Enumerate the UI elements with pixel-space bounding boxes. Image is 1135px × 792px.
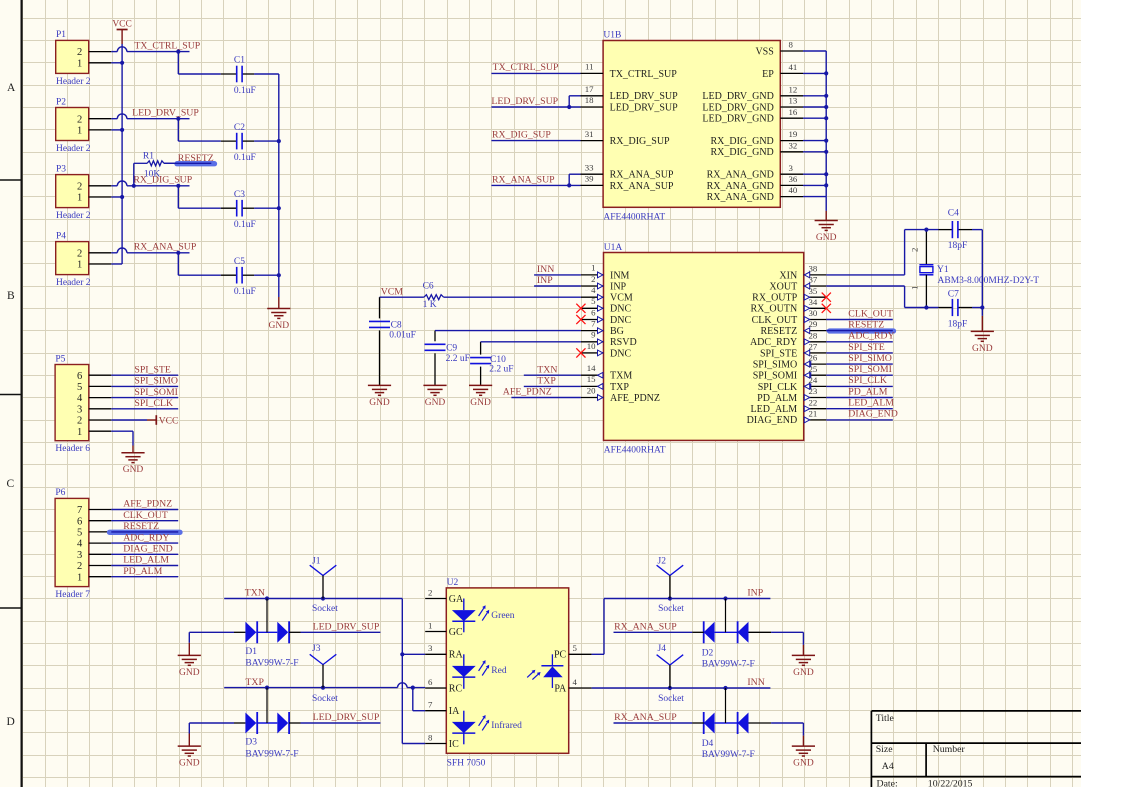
wire U1B GND bus xyxy=(803,50,826,52)
pin 6 RC U2 xyxy=(425,687,446,689)
svg-text:AFE4400RHAT: AFE4400RHAT xyxy=(604,445,666,455)
svg-text:TXP: TXP xyxy=(537,376,556,387)
pin 3 RA U2 xyxy=(425,653,446,655)
svg-text:Date:: Date: xyxy=(877,779,898,787)
svg-text:15: 15 xyxy=(587,374,596,384)
wire VCC bus vertical xyxy=(121,44,123,264)
svg-text:RX_ANA_GND: RX_ANA_GND xyxy=(707,181,774,192)
wire TX_CTRL_SUP branch to C1 xyxy=(177,52,179,74)
svg-text:GND: GND xyxy=(470,398,491,408)
pin 36 RX_ANA_GND U1B xyxy=(780,184,803,186)
junction INP at D2 xyxy=(723,596,727,600)
wire RX_DIG_SUP to U1B pin 31 xyxy=(491,140,580,142)
svg-text:GC: GC xyxy=(449,627,463,638)
svg-text:RX_DIG_SUP: RX_DIG_SUP xyxy=(492,130,551,141)
svg-text:4: 4 xyxy=(77,393,83,404)
wire decoupling GND bus right xyxy=(278,74,280,297)
svg-text:35: 35 xyxy=(809,286,818,296)
svg-text:A: A xyxy=(7,82,16,94)
svg-text:D: D xyxy=(7,716,15,728)
pin 3 RX_ANA_GND U1B xyxy=(780,173,803,175)
diode D1 BAV99W-7-F xyxy=(245,622,256,643)
socket J4 xyxy=(657,655,684,665)
svg-text:LED_DRV_GND: LED_DRV_GND xyxy=(702,114,773,125)
svg-text:J3: J3 xyxy=(312,644,321,654)
svg-text:23: 23 xyxy=(809,386,818,396)
svg-text:LED_DRV_SUP: LED_DRV_SUP xyxy=(610,91,679,102)
wire XOUT xyxy=(826,285,904,287)
svg-text:2: 2 xyxy=(910,248,920,252)
svg-text:LED_ALM: LED_ALM xyxy=(848,398,894,409)
svg-text:24: 24 xyxy=(809,375,818,385)
svg-text:GA: GA xyxy=(449,594,464,605)
svg-text:XOUT: XOUT xyxy=(769,281,797,292)
svg-text:VCC: VCC xyxy=(159,416,179,426)
wire TXP to pin 15 xyxy=(524,385,581,387)
junction crystal bottom xyxy=(924,305,928,309)
junction U1B gnd bus row xyxy=(824,71,828,75)
junction TXN at D1 xyxy=(265,596,269,600)
svg-text:Title: Title xyxy=(876,713,895,724)
svg-text:2: 2 xyxy=(428,587,432,597)
connector P6 Header 7 xyxy=(55,498,89,586)
svg-text:Socket: Socket xyxy=(312,694,338,704)
svg-text:Header 6: Header 6 xyxy=(55,444,90,454)
pin 21 DIAG_END U1A xyxy=(804,419,827,421)
wire LED_DRV_SUP xyxy=(111,118,117,120)
svg-text:C3: C3 xyxy=(234,190,245,200)
pin 2 GA U2 xyxy=(425,598,446,600)
svg-text:P3: P3 xyxy=(56,164,66,174)
svg-text:A4: A4 xyxy=(882,761,894,772)
svg-text:RX_ANA_SUP: RX_ANA_SUP xyxy=(492,175,555,186)
svg-text:3: 3 xyxy=(428,643,433,653)
pin 33 RX_ANA_SUP U1B xyxy=(581,173,604,175)
wire XIN xyxy=(826,274,904,276)
svg-text:5: 5 xyxy=(573,643,578,653)
svg-text:INP: INP xyxy=(610,281,627,292)
junction U1B gnd bus row xyxy=(824,116,828,120)
wire DIAG_END at P6 xyxy=(111,553,178,555)
svg-text:32: 32 xyxy=(789,140,798,150)
svg-text:C10: C10 xyxy=(490,355,506,365)
wire TX_CTRL_SUP to U1B pin 11 xyxy=(491,72,580,74)
junction C3 at GND bus xyxy=(277,206,281,210)
svg-text:BG: BG xyxy=(610,326,624,337)
svg-text:3: 3 xyxy=(77,550,82,561)
svg-text:TX_CTRL_SUP: TX_CTRL_SUP xyxy=(493,62,559,73)
highlight RESETZ at R1 xyxy=(177,161,215,166)
capacitor C3 xyxy=(221,207,237,209)
svg-text:D2: D2 xyxy=(702,648,714,658)
wire RX_DIG_SUP xyxy=(111,185,117,187)
wire D1 left to GND xyxy=(189,631,234,633)
wire TX_CTRL_SUP xyxy=(111,51,117,53)
svg-text:SPI_SIMO: SPI_SIMO xyxy=(134,376,178,387)
pin 41 EP U1B xyxy=(780,72,803,74)
svg-text:INM: INM xyxy=(610,270,630,281)
capacitor C10 2.2uF xyxy=(480,342,482,355)
svg-text:INN: INN xyxy=(537,264,554,275)
svg-text:1: 1 xyxy=(591,263,595,273)
pin 22 LED_ALM U1A xyxy=(804,408,827,410)
svg-text:9: 9 xyxy=(591,330,596,340)
pin 20 AFE_PDNZ U1A xyxy=(581,397,604,399)
svg-text:LED_DRV_GND: LED_DRV_GND xyxy=(702,102,773,113)
svg-text:Number: Number xyxy=(933,744,966,755)
wire INP to pin 2 xyxy=(534,285,581,287)
svg-text:1: 1 xyxy=(77,58,82,69)
svg-text:17: 17 xyxy=(585,84,594,94)
zone tick 2 xyxy=(0,394,22,396)
wire LED_DRV_SUP branch to C2 xyxy=(177,119,179,141)
zone tick 1 xyxy=(0,179,22,181)
svg-text:XIN: XIN xyxy=(779,270,797,281)
svg-text:4: 4 xyxy=(77,539,83,550)
wire VCM xyxy=(380,296,424,298)
wire C10 to pin 9 RSVD xyxy=(481,341,581,343)
wire SPI_STE right xyxy=(826,352,893,354)
junction U1B gnd bus row xyxy=(824,172,828,176)
svg-text:C1: C1 xyxy=(234,56,245,66)
svg-text:1: 1 xyxy=(77,193,82,204)
svg-text:B: B xyxy=(7,290,15,302)
svg-text:PA: PA xyxy=(554,683,567,694)
svg-text:5: 5 xyxy=(591,296,596,306)
junction U1B gnd bus row xyxy=(824,139,828,143)
wire LED_ALM right xyxy=(826,408,893,410)
pin 4 PA U2 xyxy=(569,687,592,689)
svg-text:BAV99W-7-F: BAV99W-7-F xyxy=(702,750,755,760)
junction P2 pin1 on VCC bus xyxy=(120,128,124,132)
wire C9 to pin 7 BG xyxy=(435,330,581,332)
svg-text:Socket: Socket xyxy=(312,604,338,614)
svg-text:RX_ANA_GND: RX_ANA_GND xyxy=(707,192,774,203)
junction LED_DRV_SUP to C2 xyxy=(176,117,180,121)
svg-text:BAV99W-7-F: BAV99W-7-F xyxy=(245,749,298,759)
svg-text:0.1uF: 0.1uF xyxy=(234,287,256,297)
capacitor C8 0.01uF xyxy=(379,297,381,318)
ic U2 SFH 7050 body xyxy=(446,588,568,753)
junction R1 on RX_DIG_SUP xyxy=(132,184,136,188)
wire CLK_OUT right xyxy=(826,319,893,321)
svg-text:1: 1 xyxy=(910,286,920,290)
svg-text:SPI_CLK: SPI_CLK xyxy=(134,398,173,409)
wire RX_DIG_SUP branch to C3 xyxy=(177,186,179,208)
diode D4 BAV99W-7-F xyxy=(703,712,705,734)
no-connect X pin 6 xyxy=(576,315,585,324)
pin 6 DNC U1A xyxy=(581,319,604,321)
no-connect X pin 10 xyxy=(576,348,585,357)
connector P4 Header 2 xyxy=(56,242,89,275)
wire RX_ANA_SUP branch to C5 xyxy=(177,253,179,275)
svg-text:3: 3 xyxy=(789,163,794,173)
svg-text:RC: RC xyxy=(449,683,463,694)
svg-text:21: 21 xyxy=(809,409,818,419)
capacitor C5 xyxy=(221,274,237,276)
svg-text:5: 5 xyxy=(77,382,82,393)
svg-text:AFE_PDNZ: AFE_PDNZ xyxy=(123,499,172,510)
svg-text:GND: GND xyxy=(816,233,837,243)
resistor R1 10K xyxy=(133,163,135,186)
svg-text:GND: GND xyxy=(793,668,814,678)
wire D3 left to GND xyxy=(189,722,234,724)
wire PD_ALM right xyxy=(826,397,893,399)
junction TXN at RA xyxy=(400,652,404,656)
svg-text:2: 2 xyxy=(77,248,82,259)
svg-text:TX_CTRL_SUP: TX_CTRL_SUP xyxy=(134,41,200,52)
sheet border line xyxy=(21,0,23,787)
svg-text:J4: J4 xyxy=(658,644,667,654)
pin 14 TXM U1A xyxy=(581,374,604,376)
svg-text:C5: C5 xyxy=(234,257,245,267)
svg-text:ADC_RDY: ADC_RDY xyxy=(848,331,894,342)
svg-text:19: 19 xyxy=(789,129,798,139)
svg-text:TXP: TXP xyxy=(610,382,629,393)
pin 12 LED_DRV_GND U1B xyxy=(780,95,803,97)
wire SPI_SOMI right xyxy=(826,374,893,376)
pin 28 ADC_RDY U1A xyxy=(804,341,827,343)
svg-text:29: 29 xyxy=(809,319,818,329)
pin 26 SPI_SIMO U1A xyxy=(804,363,827,365)
svg-text:P5: P5 xyxy=(55,354,65,364)
svg-text:C7: C7 xyxy=(948,290,959,300)
wire ADC_RDY right xyxy=(826,341,893,343)
svg-text:LED_DRV_SUP: LED_DRV_SUP xyxy=(313,622,380,633)
wire TXP xyxy=(224,687,397,689)
wire RX_ANA_SUP to D4 xyxy=(614,722,693,724)
svg-text:10/22/2015: 10/22/2015 xyxy=(928,779,973,787)
svg-text:P2: P2 xyxy=(56,97,66,107)
svg-text:SPI_SOMI: SPI_SOMI xyxy=(848,364,892,375)
svg-text:RESETZ: RESETZ xyxy=(761,326,798,337)
svg-text:1: 1 xyxy=(428,620,432,630)
svg-text:GND: GND xyxy=(179,759,200,769)
wire RX_ANA_SUP to U1B pins 33 39 xyxy=(491,184,580,186)
wire SPI_SIMO at P5 xyxy=(111,385,178,387)
pin 8 IC U2 xyxy=(425,743,446,745)
junction INN at J4 xyxy=(668,686,672,690)
junction TXP at D3 xyxy=(265,686,269,690)
junction U1B gnd bus row xyxy=(824,94,828,98)
svg-text:31: 31 xyxy=(585,129,594,139)
svg-text:1: 1 xyxy=(77,260,82,271)
junction crystal top xyxy=(924,228,928,232)
svg-text:SPI_CLK: SPI_CLK xyxy=(758,382,798,393)
wire crystal right vertical xyxy=(981,230,983,308)
svg-text:D3: D3 xyxy=(245,738,257,748)
svg-text:U2: U2 xyxy=(447,578,459,588)
svg-text:4: 4 xyxy=(573,677,578,687)
wire RX_ANA_SUP xyxy=(111,252,117,254)
svg-text:1 K: 1 K xyxy=(423,300,437,310)
svg-text:GND: GND xyxy=(972,344,993,354)
svg-text:IC: IC xyxy=(449,739,459,750)
capacitor C4 18pF xyxy=(939,229,953,231)
svg-text:D4: D4 xyxy=(702,739,714,749)
svg-text:RX_OUTN: RX_OUTN xyxy=(751,304,798,315)
svg-text:28: 28 xyxy=(809,330,818,340)
wire SPI_SOMI at P5 xyxy=(111,397,178,399)
photodiode in U2 xyxy=(551,654,553,666)
pin 8 VSS U1B xyxy=(780,50,803,52)
zone tick 3 xyxy=(0,607,22,609)
svg-text:38: 38 xyxy=(809,264,818,274)
svg-text:10: 10 xyxy=(587,341,596,351)
svg-text:SPI_SOMI: SPI_SOMI xyxy=(134,387,178,398)
wire U2 pin4 PA to INN xyxy=(592,687,771,689)
wire LED_DRV_SUP to U1B pins 17 18 xyxy=(491,106,580,108)
svg-text:33: 33 xyxy=(585,162,594,172)
wire PD_ALM at P6 xyxy=(111,576,178,578)
wire INN to pin 1 xyxy=(534,274,581,276)
svg-text:40: 40 xyxy=(789,185,798,195)
svg-text:PD_ALM: PD_ALM xyxy=(123,566,162,577)
capacitor C2 xyxy=(221,140,237,142)
wire RX_ANA_SUP to D2 xyxy=(614,631,693,633)
svg-text:C9: C9 xyxy=(446,343,457,353)
wire RESETZ right xyxy=(826,330,893,332)
svg-text:RA: RA xyxy=(449,650,464,661)
svg-text:DNC: DNC xyxy=(610,348,631,359)
connector P5 Header 6 xyxy=(55,365,89,441)
svg-text:0.01uF: 0.01uF xyxy=(389,330,416,340)
svg-text:AFE_PDNZ: AFE_PDNZ xyxy=(503,387,552,398)
svg-text:SPI_SOMI: SPI_SOMI xyxy=(753,371,797,382)
svg-text:C2: C2 xyxy=(234,123,245,133)
svg-text:0.1uF: 0.1uF xyxy=(234,220,256,230)
svg-text:1: 1 xyxy=(77,126,82,137)
svg-text:LED_ALM: LED_ALM xyxy=(123,555,169,566)
svg-text:C4: C4 xyxy=(948,209,959,219)
svg-text:RX_ANA_SUP: RX_ANA_SUP xyxy=(614,622,677,633)
svg-text:LED_ALM: LED_ALM xyxy=(751,404,798,415)
svg-text:TXM: TXM xyxy=(610,371,632,382)
svg-text:Socket: Socket xyxy=(658,694,684,704)
pin 34 RX_OUTN U1A xyxy=(804,307,827,309)
title block frame xyxy=(871,710,1081,712)
wire RESETZ at P6 xyxy=(111,531,178,533)
wire crystal top xyxy=(905,229,939,231)
svg-text:P6: P6 xyxy=(55,488,65,498)
pin 11 TX_CTRL_SUP U1B xyxy=(581,72,604,74)
svg-text:RX_OUTP: RX_OUTP xyxy=(752,293,797,304)
svg-text:DIAG_END: DIAG_END xyxy=(747,415,798,426)
svg-text:P1: P1 xyxy=(56,30,66,40)
svg-text:8: 8 xyxy=(789,40,794,50)
pin 19 RX_DIG_GND U1B xyxy=(780,140,803,142)
svg-text:VCC: VCC xyxy=(112,19,132,29)
svg-text:2.2 uF: 2.2 uF xyxy=(489,365,513,375)
svg-text:Header 2: Header 2 xyxy=(56,211,91,221)
svg-text:2: 2 xyxy=(77,416,82,427)
svg-text:RX_DIG_GND: RX_DIG_GND xyxy=(710,136,773,147)
svg-text:RESETZ: RESETZ xyxy=(123,521,159,532)
wire P5 pin2 to VCC xyxy=(111,419,147,421)
junction RX_DIG_SUP to C3 xyxy=(176,184,180,188)
svg-text:R1: R1 xyxy=(143,152,154,162)
svg-text:DNC: DNC xyxy=(610,315,631,326)
wire C6 to pin 4 VCM xyxy=(444,296,581,298)
svg-text:2.2 uF: 2.2 uF xyxy=(446,354,470,364)
svg-text:GND: GND xyxy=(123,465,144,475)
pin 4 VCM U1A xyxy=(581,296,604,298)
junction P1 pin1 on VCC bus xyxy=(120,61,124,65)
pin 1 INM U1A xyxy=(581,274,604,276)
wire IA branch xyxy=(412,688,414,711)
diode D3 BAV99W-7-F xyxy=(245,713,256,734)
svg-text:RX_ANA_SUP: RX_ANA_SUP xyxy=(134,242,197,253)
svg-text:SPI_STE: SPI_STE xyxy=(848,342,884,353)
ground GND at D3 xyxy=(188,734,190,747)
svg-text:13: 13 xyxy=(789,96,798,106)
pin 10 DNC U1A xyxy=(581,352,604,354)
wire TXN xyxy=(224,598,402,600)
svg-text:Header 2: Header 2 xyxy=(56,144,91,154)
svg-text:0.1uF: 0.1uF xyxy=(234,86,256,96)
svg-text:RESETZ: RESETZ xyxy=(848,319,884,330)
svg-text:BAV99W-7-F: BAV99W-7-F xyxy=(702,660,755,670)
junction TXP at RC IA xyxy=(411,686,415,690)
svg-text:VCM: VCM xyxy=(381,287,404,298)
ground GND at D1 xyxy=(188,643,190,656)
ground GND at D4 xyxy=(802,736,804,747)
svg-text:Red: Red xyxy=(491,666,507,676)
svg-text:PD_ALM: PD_ALM xyxy=(757,393,797,404)
svg-text:4: 4 xyxy=(591,285,596,295)
svg-text:GND: GND xyxy=(793,759,814,769)
svg-text:DIAG_END: DIAG_END xyxy=(848,409,898,420)
wire D1 LED_DRV_SUP xyxy=(301,631,381,633)
wire TXN to pin 14 xyxy=(524,374,581,376)
ground GND decoupling bus xyxy=(278,297,280,309)
no-connect X pin 5 xyxy=(576,304,585,313)
svg-text:C6: C6 xyxy=(423,282,434,292)
svg-text:ADC_RDY: ADC_RDY xyxy=(750,337,797,348)
svg-text:LED_DRV_GND: LED_DRV_GND xyxy=(702,91,773,102)
svg-text:CLK_OUT: CLK_OUT xyxy=(752,315,798,326)
wire SPI_CLK right xyxy=(826,385,893,387)
junction C2 at GND bus xyxy=(277,139,281,143)
svg-text:RX_ANA_SUP: RX_ANA_SUP xyxy=(610,181,674,192)
svg-text:RX_DIG_SUP: RX_DIG_SUP xyxy=(610,136,670,147)
svg-text:0.1uF: 0.1uF xyxy=(234,153,256,163)
svg-text:30: 30 xyxy=(809,308,818,318)
no-connect X pin 34 xyxy=(822,304,831,313)
wire AFE_PDNZ at P6 xyxy=(111,509,178,511)
svg-text:1: 1 xyxy=(77,572,82,583)
svg-text:RX_DIG_GND: RX_DIG_GND xyxy=(710,147,773,158)
wire TXN vertical to IC xyxy=(401,599,403,744)
svg-text:34: 34 xyxy=(809,297,818,307)
socket J2 xyxy=(657,565,684,575)
junction TXP at J3 xyxy=(321,686,325,690)
capacitor C7 18pF xyxy=(939,307,953,309)
svg-text:EP: EP xyxy=(762,69,774,80)
junction U1B gnd bus row xyxy=(824,150,828,154)
capacitor C1 xyxy=(221,73,237,75)
svg-text:18pF: 18pF xyxy=(948,320,968,330)
svg-text:PC: PC xyxy=(554,650,567,661)
svg-text:U1A: U1A xyxy=(604,243,623,253)
svg-text:6: 6 xyxy=(428,677,433,687)
pin 13 LED_DRV_GND U1B xyxy=(780,106,803,108)
svg-text:PD_ALM: PD_ALM xyxy=(848,386,887,397)
svg-text:INP: INP xyxy=(747,588,763,599)
svg-text:18: 18 xyxy=(585,95,594,105)
svg-text:11: 11 xyxy=(585,62,593,72)
svg-text:ADC_RDY: ADC_RDY xyxy=(123,532,169,543)
